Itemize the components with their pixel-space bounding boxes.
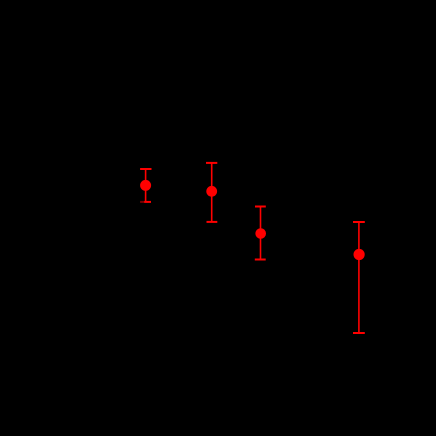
error bar 1 bottom cap (dark overlapped part) xyxy=(140,201,144,203)
error bar 1 top cap xyxy=(140,168,151,170)
error bar 3 top cap xyxy=(255,206,266,208)
data point 4 marker xyxy=(354,249,365,260)
error bar 3 bottom cap xyxy=(255,259,266,261)
error bar 4 bottom cap xyxy=(353,332,365,334)
error bar 4 vertical line xyxy=(358,222,360,333)
error bar 1 vertical line xyxy=(145,169,147,202)
error bar 2 bottom cap xyxy=(207,221,218,223)
error bar 3 vertical line xyxy=(260,207,262,260)
data point 3 marker xyxy=(255,228,266,239)
error bar 2 vertical line xyxy=(211,163,213,222)
error bar 2 top cap xyxy=(206,162,217,164)
error bar 4 top cap xyxy=(353,221,365,223)
data point 2 marker xyxy=(206,186,217,197)
data point 1 marker xyxy=(140,180,151,191)
error bar 1 bottom cap (bright part) xyxy=(144,201,151,203)
